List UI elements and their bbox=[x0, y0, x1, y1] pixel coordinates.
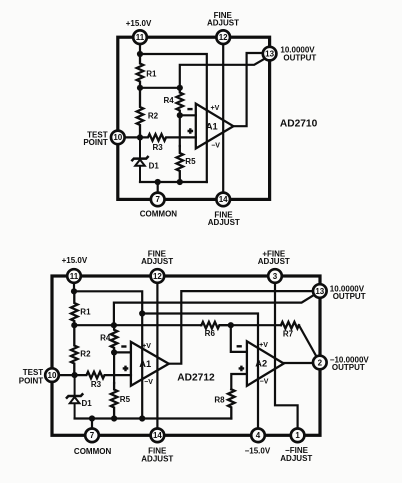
svg-text:12: 12 bbox=[219, 33, 228, 42]
svg-text:R3: R3 bbox=[152, 143, 163, 152]
IC package outline AD2712 bbox=[52, 276, 320, 435]
svg-text:10: 10 bbox=[113, 133, 122, 142]
wire pin 12 fine adjust down to pin 14 bbox=[222, 37, 224, 199]
svg-text:11: 11 bbox=[136, 33, 145, 42]
resistor R1 bbox=[137, 54, 144, 88]
svg-text:−V: −V bbox=[260, 379, 269, 386]
svg-text:−V: −V bbox=[211, 142, 220, 149]
junction +15V rail at R1 top (bottom) bbox=[71, 288, 77, 294]
wire R4/R5 node down to R5 bbox=[179, 115, 181, 146]
IC package outline AD2710 bbox=[118, 37, 270, 199]
svg-text:POINT: POINT bbox=[19, 376, 44, 385]
resistor R3 (bottom) bbox=[75, 372, 131, 379]
svg-text:−V: −V bbox=[144, 379, 153, 386]
svg-text:+V: +V bbox=[142, 343, 151, 350]
wire R1 bottom node to R4 top node bbox=[140, 87, 180, 89]
op-amp A1 bbox=[196, 104, 234, 149]
wire pin 12 fine adjust down to pin 14 (bottom circuit) bbox=[156, 276, 158, 435]
pin 3 (+fine adjust) bbox=[268, 269, 282, 283]
wire internal common rail (bottom) bbox=[75, 417, 232, 419]
pin 13 (10.0000V output) bbox=[263, 47, 277, 61]
pin 13 (10.0000V output, bottom) bbox=[313, 284, 327, 298]
zener diode D1 bbox=[139, 137, 141, 158]
svg-text:R2: R2 bbox=[80, 350, 91, 359]
svg-text:AD2710: AD2710 bbox=[280, 118, 318, 129]
pin 11 (+15.0V, bottom) bbox=[67, 269, 81, 283]
pin 1 (-fine adjust) bbox=[291, 429, 305, 443]
junction test point node (bottom) bbox=[72, 372, 78, 378]
wire feedback from R4 node up and right to pin 13 (bottom) bbox=[114, 295, 314, 325]
svg-text:R2: R2 bbox=[148, 111, 159, 120]
op-amp A1 (bottom) bbox=[131, 342, 169, 386]
wire R7 to pin 2 output (diagonal) bbox=[299, 325, 317, 357]
wire inverting input of A1 (bottom) bbox=[114, 351, 131, 353]
svg-text:D1: D1 bbox=[82, 399, 93, 408]
junction common rail at pin 7 stub (bottom) bbox=[89, 415, 95, 421]
wire +V supply rail to op-amp A1 (+V over, -V under) down to common bbox=[140, 54, 207, 182]
svg-text:R5: R5 bbox=[185, 157, 196, 166]
junction R6/R7 inverting node of A2 bbox=[228, 322, 234, 328]
svg-text:OUTPUT: OUTPUT bbox=[283, 53, 316, 62]
wire +15V branch to op-amp A2 supply and down to pin 4 (-15V) bbox=[142, 314, 258, 436]
zener diode D1 (bottom) bbox=[74, 375, 76, 396]
svg-text:4: 4 bbox=[256, 431, 261, 440]
resistor R4 bbox=[177, 88, 184, 116]
pin 2 (-10.0000V output) bbox=[313, 356, 327, 370]
svg-text:7: 7 bbox=[90, 431, 95, 440]
svg-text:14: 14 bbox=[219, 195, 228, 204]
svg-text:2: 2 bbox=[318, 358, 323, 367]
svg-text:14: 14 bbox=[153, 431, 162, 440]
junction +15V rail at R1 top bbox=[137, 51, 143, 57]
resistor R8 bbox=[228, 389, 235, 418]
wire test point pin 10 to divider node bbox=[118, 136, 140, 138]
junction common rail at pin 7 stub bbox=[155, 179, 161, 185]
junction R1 bottom / R2 top node bbox=[137, 85, 143, 91]
svg-text:A1: A1 bbox=[206, 122, 218, 132]
svg-text:R3: R3 bbox=[91, 380, 102, 389]
wire op-amp A1 output up to pin 13 output bbox=[233, 53, 263, 126]
svg-text:ADJUST: ADJUST bbox=[141, 257, 173, 266]
wire pin 3 +fine adjust through A2 to pin 1 -fine adjust bbox=[275, 276, 298, 435]
wire common rail stub to pin 7 (bottom) bbox=[91, 419, 93, 436]
wire feedback from node R1/R4 up and right to pin 13 bbox=[180, 59, 265, 88]
svg-text:+V: +V bbox=[211, 105, 220, 112]
junction common rail at R5 bottom bbox=[177, 179, 183, 185]
svg-text:COMMON: COMMON bbox=[140, 210, 178, 219]
svg-text:13: 13 bbox=[265, 49, 274, 58]
svg-text:12: 12 bbox=[153, 272, 162, 281]
resistor R5 bbox=[177, 146, 184, 182]
svg-text:A1: A1 bbox=[139, 359, 151, 369]
svg-text:13: 13 bbox=[315, 287, 324, 296]
svg-text:1: 1 bbox=[295, 431, 300, 440]
svg-text:ADJUST: ADJUST bbox=[258, 257, 290, 266]
junction feedback / R4 top node (bottom) bbox=[111, 322, 117, 328]
wire internal common rail bbox=[140, 181, 207, 183]
wire +15V from pin 11 down to supply rail (bottom circuit) bbox=[73, 276, 75, 291]
resistor R2 bbox=[137, 88, 144, 138]
resistor R5 (bottom) bbox=[111, 383, 118, 419]
wire R4/R5 node down to R5 (bottom) bbox=[113, 352, 115, 383]
wire non-inverting input of A2 to R8 bbox=[231, 374, 247, 389]
pin 7 (common) bbox=[151, 193, 165, 207]
junction A2 supply tap on +V line bbox=[139, 310, 145, 316]
svg-text:ADJUST: ADJUST bbox=[280, 454, 312, 463]
pin 14 (fine adjust) bbox=[216, 193, 230, 207]
wire test point pin 10 to divider node (bottom) bbox=[52, 374, 75, 376]
svg-text:OUTPUT: OUTPUT bbox=[332, 363, 365, 372]
svg-text:+15.0V: +15.0V bbox=[126, 19, 152, 28]
svg-text:AD2712: AD2712 bbox=[177, 372, 215, 383]
svg-text:11: 11 bbox=[70, 272, 79, 281]
pin 12 (fine adjust) bbox=[216, 30, 230, 44]
junction R4/R5 inverting input node bbox=[177, 112, 183, 118]
wire common rail stub to pin 7 bbox=[157, 182, 159, 199]
svg-text:+V: +V bbox=[259, 342, 268, 349]
svg-text:D1: D1 bbox=[149, 161, 160, 170]
junction feedback / R4 top node bbox=[177, 85, 183, 91]
junction common rail at A1 -V line (bottom) bbox=[139, 415, 145, 421]
wire inverting input of A1 from R4/R5 node bbox=[180, 114, 196, 116]
svg-text:A2: A2 bbox=[255, 359, 267, 369]
svg-text:R4: R4 bbox=[164, 96, 175, 105]
svg-text:ADJUST: ADJUST bbox=[141, 454, 173, 463]
svg-text:R7: R7 bbox=[283, 330, 294, 339]
pin 12 (fine adjust, bottom) bbox=[151, 269, 165, 283]
svg-text:ADJUST: ADJUST bbox=[207, 19, 239, 28]
svg-text:R6: R6 bbox=[205, 329, 216, 338]
wire R6/R7 node down to inverting input of A2 bbox=[231, 325, 247, 352]
svg-text:R5: R5 bbox=[120, 395, 131, 404]
svg-text:R1: R1 bbox=[146, 70, 157, 79]
resistor R6 bbox=[201, 322, 231, 329]
svg-text:7: 7 bbox=[155, 195, 160, 204]
wire +V supply rail to op-amp A1 down to common (bottom circuit) bbox=[74, 291, 142, 418]
svg-text:R4: R4 bbox=[100, 334, 111, 343]
wire +15V from pin 11 down to supply rail bbox=[139, 37, 141, 54]
svg-text:3: 3 bbox=[273, 272, 278, 281]
svg-text:10: 10 bbox=[48, 371, 57, 380]
svg-text:−15.0V: −15.0V bbox=[245, 447, 271, 456]
pin 11 (+15.0V) bbox=[133, 30, 147, 44]
wire divider bus R1 bottom to R4 and R6 bbox=[74, 324, 201, 326]
pin 4 (-15.0V) bbox=[251, 429, 265, 443]
svg-text:COMMON: COMMON bbox=[74, 447, 112, 456]
resistor R4 (bottom) bbox=[111, 325, 118, 352]
wire op-amp A2 output to pin 2 bbox=[284, 362, 313, 364]
op-amp A2 bbox=[247, 341, 284, 386]
junction common rail at R5 bottom (bottom) bbox=[111, 415, 117, 421]
svg-text:R8: R8 bbox=[214, 395, 225, 404]
pin 10 (test point) bbox=[111, 131, 125, 145]
pin 7 (common, bottom) bbox=[85, 429, 99, 443]
svg-text:+15.0V: +15.0V bbox=[62, 256, 88, 265]
junction test point node bbox=[137, 134, 143, 140]
pin 14 (fine adjust, bottom) bbox=[151, 429, 165, 443]
resistor R3 bbox=[140, 134, 196, 141]
svg-text:OUTPUT: OUTPUT bbox=[333, 292, 366, 301]
resistor R1 (bottom) bbox=[71, 291, 78, 325]
wire R6/R7 node to R7 bbox=[231, 324, 281, 326]
pin 10 (test point, bottom) bbox=[45, 368, 59, 382]
svg-text:POINT: POINT bbox=[83, 138, 108, 147]
wire op-amp A1 output up and right to pin 13 (bottom) bbox=[169, 291, 313, 364]
resistor R2 (bottom) bbox=[71, 325, 78, 375]
svg-text:ADJUST: ADJUST bbox=[208, 218, 240, 227]
junction R1 bottom / R2 top node (bottom) bbox=[71, 322, 77, 328]
svg-text:R1: R1 bbox=[80, 307, 91, 316]
junction R4/R5 inverting input node (bottom) bbox=[111, 349, 117, 355]
resistor R7 bbox=[281, 322, 299, 329]
